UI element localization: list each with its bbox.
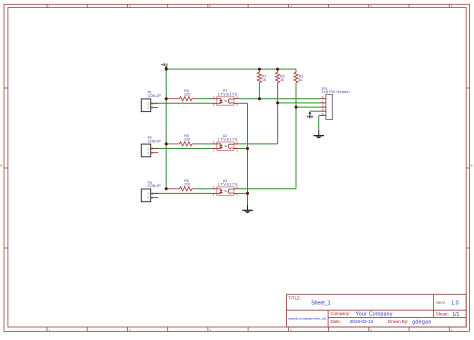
svg-text:+5V: +5V <box>306 115 313 119</box>
wire R3 top lead <box>295 69 297 72</box>
wire R1 top lead <box>258 69 260 72</box>
wire U2 pin4 to R2 <box>239 143 278 145</box>
wire R5 to U2 pin1 <box>197 143 213 145</box>
svg-text:Drawn By:: Drawn By: <box>388 319 408 324</box>
ground (JP1 pin5) <box>313 131 324 139</box>
ground (emitter bus) <box>242 205 253 213</box>
wire U1 pin4 / R1 to JP1 pin1 <box>239 98 321 100</box>
wire JP1 pin5 to ground <box>319 114 321 116</box>
svg-text:B: B <box>471 163 473 167</box>
resistor R2 1k <box>276 72 280 82</box>
svg-text:CON-2P: CON-2P <box>148 94 162 98</box>
svg-text:220: 220 <box>184 182 190 186</box>
svg-text:Sheet:: Sheet: <box>436 312 449 317</box>
wire P2 pin1 to U2 pin2 (cathode) <box>151 148 212 150</box>
svg-text:220: 220 <box>184 138 190 142</box>
svg-text:Date:: Date: <box>331 319 342 324</box>
wire JP1 pin4 to +5V <box>310 110 321 112</box>
wire R3 bottom lead <box>295 83 297 189</box>
wire P3 pin1 to U3 pin2 (cathode) <box>151 192 212 194</box>
wire U3 pin3 emitter to bus <box>239 192 248 194</box>
connector P3 CON-2P <box>141 181 161 202</box>
svg-text:2019-02-12: 2019-02-12 <box>350 319 374 324</box>
resistor R3 1k <box>294 72 298 82</box>
wire emitter ground bus <box>247 103 249 205</box>
svg-text:1k: 1k <box>262 78 266 82</box>
wire R2 tap to JP1 pin2 <box>278 102 321 104</box>
svg-text:CON-2P: CON-2P <box>148 184 162 188</box>
svg-text:TITLE:: TITLE: <box>288 296 301 301</box>
svg-text:220: 220 <box>184 92 190 96</box>
connector P2 CON-2P <box>141 136 161 157</box>
svg-text:Sheet_1: Sheet_1 <box>311 301 330 307</box>
svg-text:LTV817S: LTV817S <box>218 137 238 142</box>
svg-text:1/1: 1/1 <box>452 312 459 318</box>
wire +5V feed vertical <box>165 68 167 189</box>
svg-text:LTV817S: LTV817S <box>218 181 238 186</box>
wire +5V top rail <box>166 68 296 70</box>
wire U3 pin4 to R3 <box>239 188 296 190</box>
optocoupler U1 LTV817S <box>212 89 239 107</box>
wire U2 pin3 emitter to bus <box>239 148 248 150</box>
svg-text:1x5 Pin Header: 1x5 Pin Header <box>322 89 351 94</box>
resistor R5 220 <box>167 134 197 146</box>
svg-text:gdegan: gdegan <box>412 319 431 325</box>
svg-text:easyeda.com/gdegan/sheet_1/a1: easyeda.com/gdegan/sheet_1/a1 <box>288 317 327 321</box>
optocoupler U3 LTV817S <box>212 179 239 197</box>
connector JP1 1x5 Pin Header <box>320 87 350 120</box>
wire P1 pin1 to U1 pin2 (cathode) <box>151 102 212 104</box>
svg-text:1k: 1k <box>299 78 303 82</box>
svg-text:REV:: REV: <box>436 300 445 305</box>
wire R4 to U1 pin1 <box>197 98 213 100</box>
junction dots <box>165 68 298 195</box>
resistor R1 1k <box>257 72 261 82</box>
title block <box>287 294 467 327</box>
wire R1 bottom lead <box>258 83 260 99</box>
svg-text:CON-2P: CON-2P <box>148 139 162 143</box>
svg-text:Your Company: Your Company <box>356 312 393 318</box>
svg-text:+5V: +5V <box>161 63 168 67</box>
power flag +5V (at JP1) <box>306 111 313 119</box>
wire R2 top lead <box>277 69 279 72</box>
svg-text:LTV817S: LTV817S <box>218 91 238 96</box>
wire U1 pin3 emitter to bus <box>239 102 248 104</box>
connector P1 CON-2P <box>141 91 161 112</box>
wire R6 to U3 pin1 <box>197 188 213 190</box>
wire R3 tap to JP1 pin3 <box>296 106 320 108</box>
wire ground drop <box>318 115 320 130</box>
svg-text:1.0: 1.0 <box>451 301 459 307</box>
svg-text:Company:: Company: <box>331 311 351 316</box>
svg-text:B: B <box>0 163 2 167</box>
optocoupler U2 LTV817S <box>212 134 239 152</box>
resistor R4 220 <box>167 89 197 101</box>
resistor R6 220 <box>167 179 197 191</box>
svg-text:1k: 1k <box>280 78 284 82</box>
wire R2 bottom lead <box>277 83 279 144</box>
